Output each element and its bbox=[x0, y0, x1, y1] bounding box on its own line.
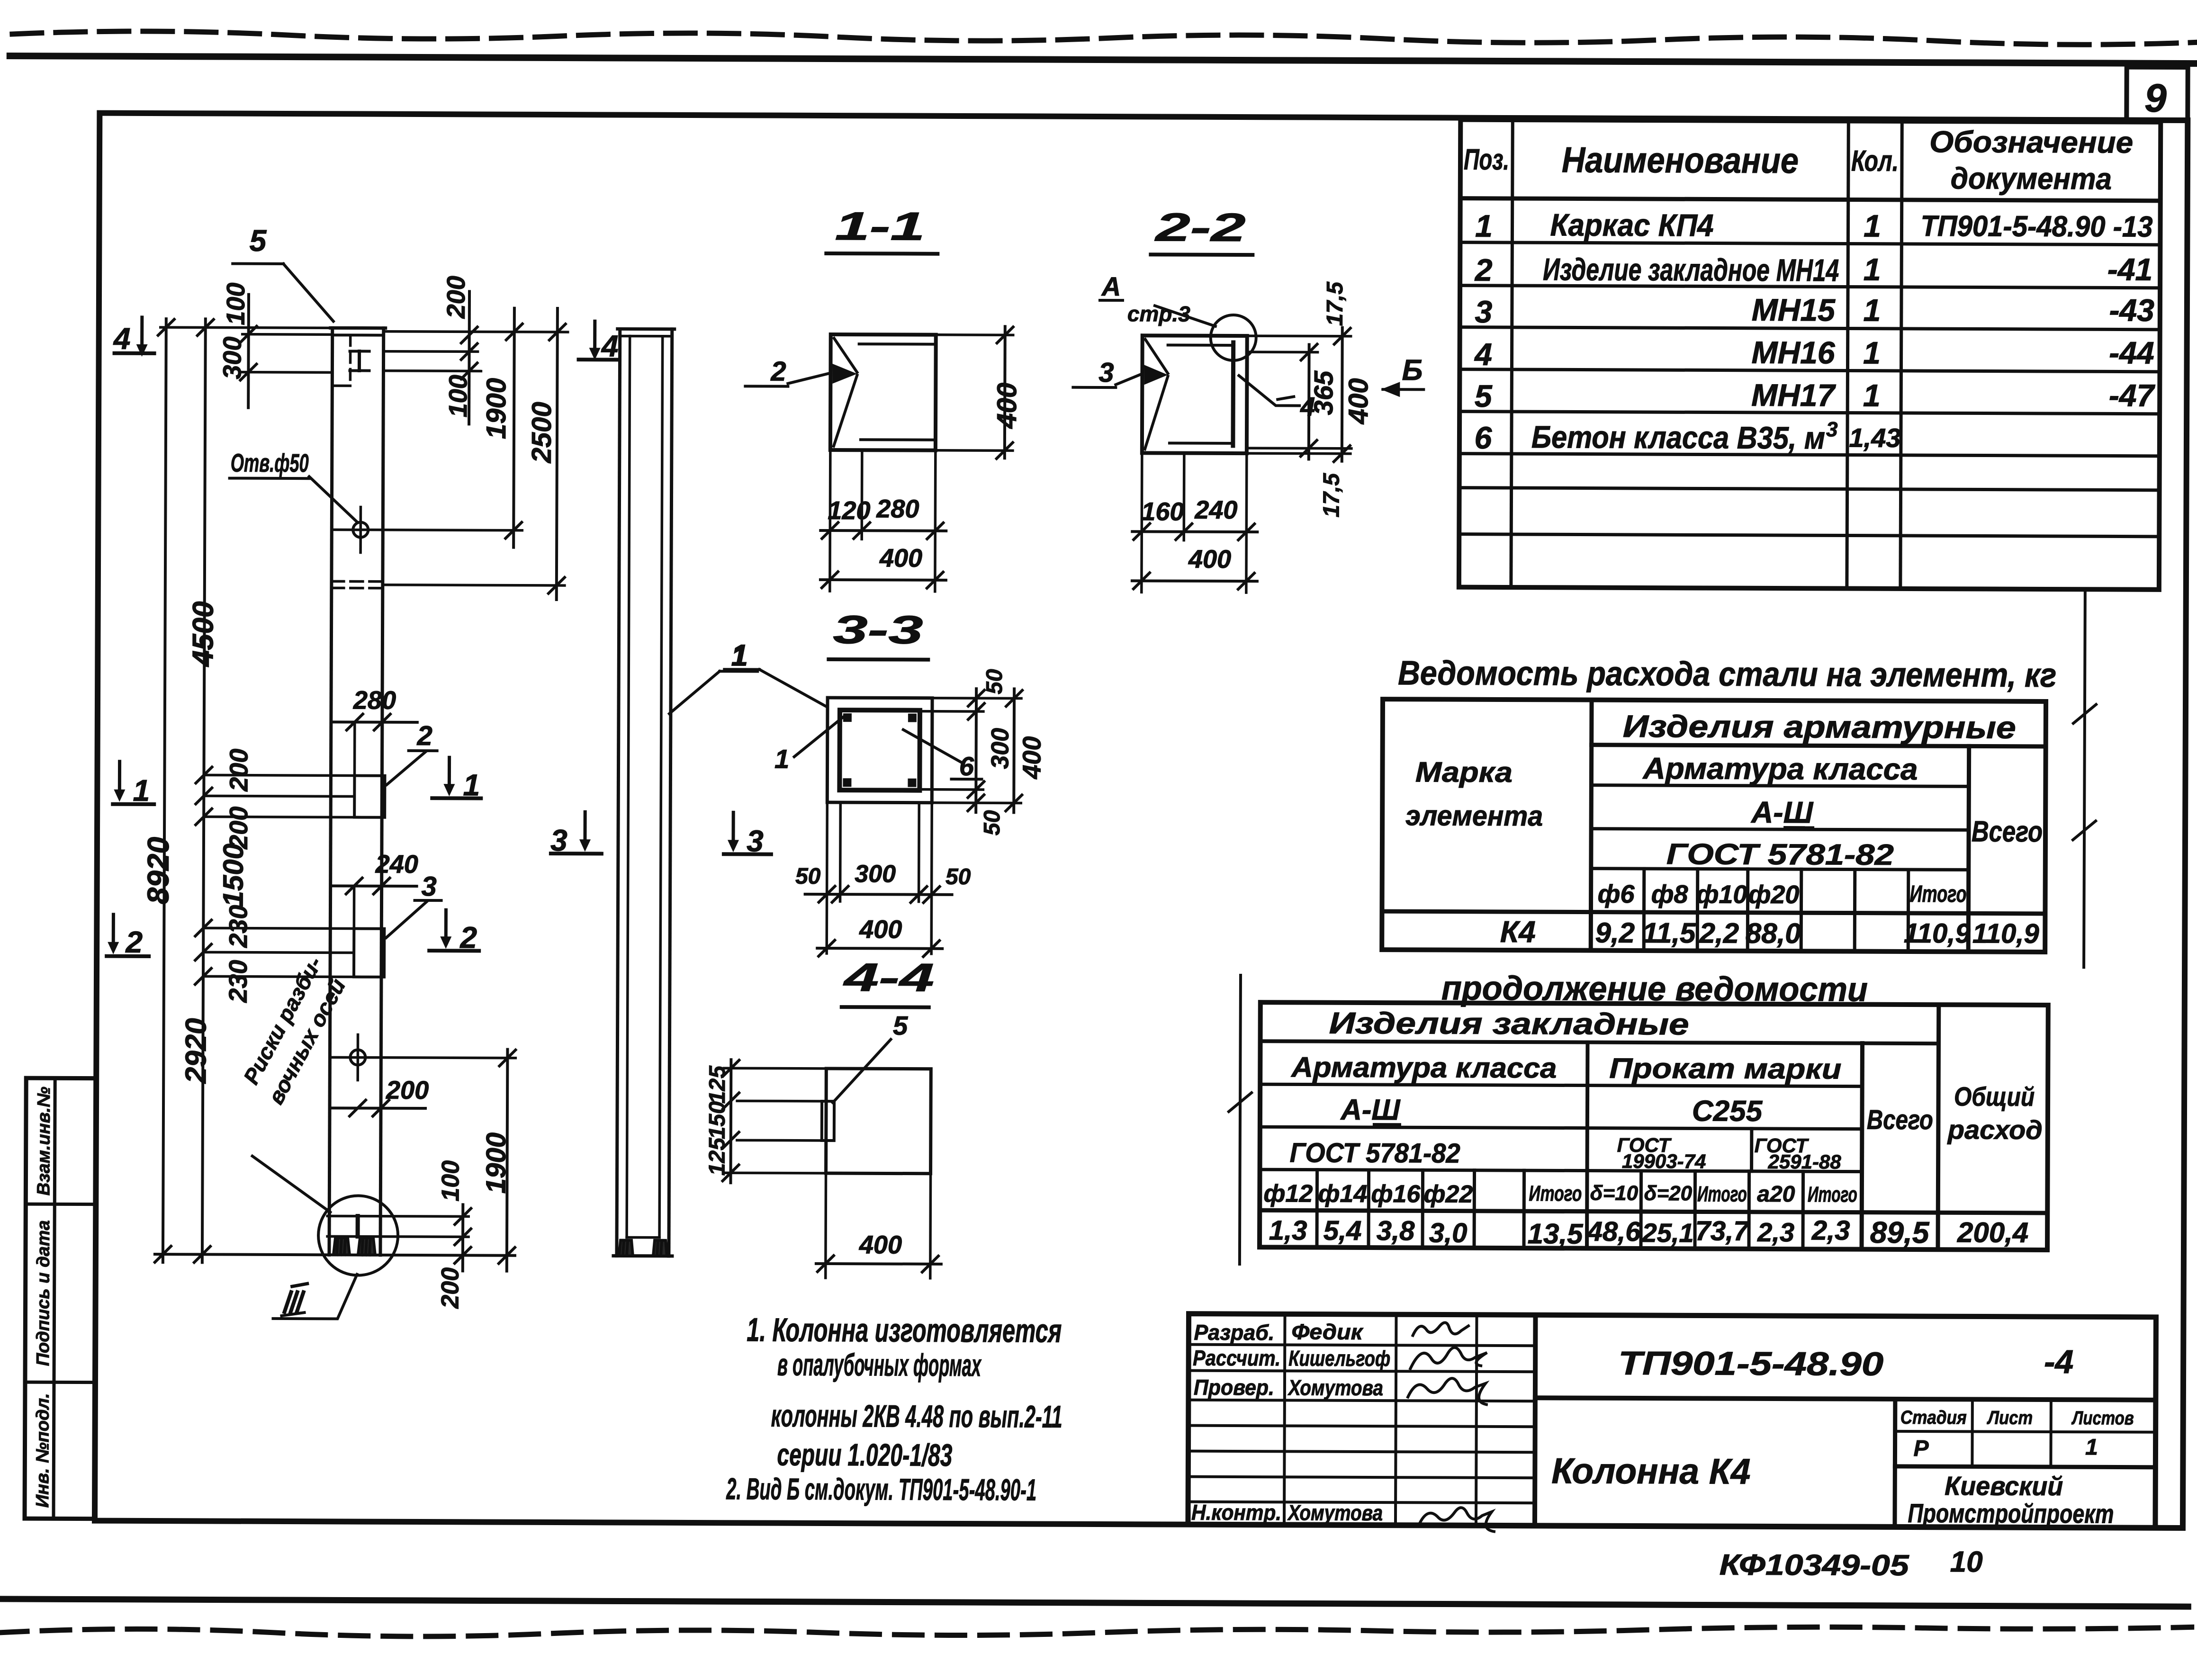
label A leader bbox=[1155, 305, 1216, 326]
spec row line 3 bbox=[1460, 327, 2160, 330]
s33 bottom ext a bbox=[827, 802, 827, 953]
svg-text:2,3: 2,3 bbox=[1757, 1217, 1794, 1247]
svg-text:9: 9 bbox=[2144, 76, 2167, 120]
extension line level 788 bbox=[383, 369, 481, 372]
svg-text:ф14: ф14 bbox=[1318, 1180, 1367, 1208]
steel table header bottom line bbox=[1382, 911, 2045, 914]
svg-text:2: 2 bbox=[1474, 252, 1493, 287]
s11 tick d1 bbox=[822, 522, 838, 539]
svg-text:δ=10: δ=10 bbox=[1590, 1182, 1639, 1205]
svg-text:400: 400 bbox=[1343, 378, 1374, 424]
svg-text:6: 6 bbox=[959, 751, 974, 781]
svg-text:-47: -47 bbox=[2109, 377, 2156, 413]
section mark 2 left underline bbox=[107, 954, 149, 958]
side view right foot hatch bbox=[657, 1241, 662, 1256]
spec row line 6 bbox=[1459, 454, 2160, 456]
svg-text:9,2: 9,2 bbox=[1595, 917, 1635, 949]
s33 tick b5 bbox=[819, 940, 835, 956]
s22 dim line 400 bottom bbox=[1132, 579, 1257, 583]
steel table subcolumn f10 bbox=[1746, 869, 1750, 951]
svg-text:МН16: МН16 bbox=[1751, 335, 1836, 370]
s11 bottom ext right bbox=[935, 450, 936, 592]
svg-text:5,4: 5,4 bbox=[1324, 1215, 1362, 1246]
svg-text:3,0: 3,0 bbox=[1429, 1217, 1468, 1248]
s44 ext 2327 bbox=[737, 1100, 822, 1103]
hole axis horizontal bbox=[333, 530, 522, 530]
svg-text:колонны 2КВ 4.48 по вып.2-1: колонны 2КВ 4.48 по вып.2-11 bbox=[771, 1398, 1062, 1434]
svg-text:Наименование: Наименование bbox=[1562, 140, 1799, 181]
steel table subcolumn f20 bbox=[1800, 869, 1803, 951]
cont table Obshchiy raskhod column divider bbox=[1938, 1005, 1939, 1249]
svg-text:400: 400 bbox=[859, 915, 902, 943]
cont table line under Armatura/Prokat bbox=[1260, 1084, 1862, 1086]
hole axis vertical bbox=[359, 507, 362, 553]
svg-text:160: 160 bbox=[1141, 497, 1184, 526]
title block row Rasschit bottom bbox=[1189, 1371, 1535, 1372]
svg-text:Инв. №подл.: Инв. №подл. bbox=[33, 1393, 53, 1508]
svg-text:элемента: элемента bbox=[1405, 800, 1543, 832]
svg-text:ф8: ф8 bbox=[1651, 880, 1688, 908]
section mark 3 right underline bbox=[724, 852, 771, 856]
s44 dim line bottom bbox=[816, 1262, 941, 1266]
section 2-2 detail circle A bbox=[1211, 315, 1256, 360]
seg tick 2068 bbox=[195, 968, 211, 984]
section 1-1 anchor plate triangle bbox=[832, 364, 857, 384]
leader Otv f50 bbox=[309, 476, 357, 522]
rebar dot 1 bbox=[843, 713, 852, 722]
tick 747 bbox=[461, 343, 477, 359]
svg-text:280: 280 bbox=[876, 494, 919, 523]
riski leader bbox=[252, 1156, 330, 1213]
steel table line under Izdeliya armaturnye bbox=[1592, 745, 2046, 746]
title block row 4 bbox=[1189, 1426, 1535, 1427]
svg-text:а20: а20 bbox=[1757, 1182, 1795, 1207]
svg-text:Лист: Лист bbox=[1987, 1408, 2033, 1428]
s22 bottom ext left bbox=[1142, 453, 1142, 592]
seg tick 698 bbox=[198, 319, 214, 335]
svg-text:1: 1 bbox=[1864, 208, 1881, 243]
title block right section divider bbox=[1892, 1399, 1897, 1527]
svg-text:2,2: 2,2 bbox=[1699, 917, 1739, 949]
tick 100-300 b bbox=[240, 364, 256, 380]
svg-text:Промстройпроект: Промстройпроект bbox=[1908, 1498, 2114, 1529]
embedded I mark top bar bbox=[350, 350, 369, 352]
cont table GOST 19903/2591 divider bbox=[1750, 1129, 1753, 1171]
svg-text:2: 2 bbox=[770, 356, 786, 387]
s33 tick b2 bbox=[832, 886, 848, 902]
svg-text:ГОСТ 5781-82: ГОСТ 5781-82 bbox=[1290, 1137, 1460, 1168]
svg-text:3: 3 bbox=[421, 871, 436, 902]
section 1-1 top plate line bbox=[859, 342, 933, 346]
section 2-2 anchor diagonal top bbox=[1145, 339, 1168, 373]
s11 tick d4 bbox=[822, 572, 838, 588]
left strip divider 1 bbox=[26, 1203, 96, 1206]
column front view right edge bbox=[380, 328, 384, 1255]
svg-text:2: 2 bbox=[459, 920, 477, 954]
svg-text:3: 3 bbox=[1826, 418, 1838, 441]
svg-text:-43: -43 bbox=[2109, 292, 2154, 327]
side view inner right line bbox=[659, 336, 663, 1238]
svg-text:400: 400 bbox=[1017, 736, 1046, 779]
svg-text:50: 50 bbox=[980, 810, 1005, 836]
svg-text:Б: Б bbox=[1402, 354, 1423, 386]
s22 tick e4 bbox=[1134, 573, 1150, 589]
s44 tick l1 bbox=[723, 1060, 739, 1076]
svg-text:1900: 1900 bbox=[481, 378, 512, 439]
svg-text:400: 400 bbox=[859, 1231, 902, 1259]
dim line top 200/100 bbox=[468, 291, 471, 424]
s22 tick e3 bbox=[1238, 524, 1254, 540]
label III stroke 3 bbox=[297, 1292, 304, 1312]
s33 bottom ext b bbox=[839, 802, 842, 901]
seg tick 1687 bbox=[196, 788, 212, 804]
s22 tick 956 bbox=[1334, 446, 1350, 462]
s44 embedded plate MN17 bbox=[822, 1101, 834, 1141]
level ext 2068 bbox=[206, 976, 354, 977]
svg-text:ф12: ф12 bbox=[1263, 1180, 1313, 1207]
bottom small dim line bbox=[461, 1204, 464, 1271]
svg-text:Обозначение: Обозначение bbox=[1929, 125, 2133, 160]
dim 280 line bbox=[332, 720, 417, 724]
s22 tick e1 bbox=[1134, 523, 1150, 539]
spec column divider Poz bbox=[1511, 120, 1513, 587]
leader III bbox=[273, 1274, 357, 1319]
section mark 4 top right arrow bbox=[593, 321, 596, 349]
title block signature table right edge bbox=[1535, 1315, 1536, 1526]
tick 2500 b bbox=[549, 577, 565, 593]
s44 ext 2479 bbox=[724, 1171, 826, 1174]
s22 ext 708 bbox=[1247, 334, 1351, 337]
svg-text:200,4: 200,4 bbox=[1957, 1216, 2028, 1249]
signature of Khomutova bbox=[1407, 1378, 1488, 1405]
s11 ext bottom bbox=[936, 449, 1013, 452]
level ext 1687 bbox=[204, 795, 331, 798]
left foot outline bbox=[333, 1238, 350, 1255]
s33 tick r2 bbox=[968, 703, 984, 719]
cont subcolumn f12 bbox=[1315, 1170, 1319, 1248]
label 2 bar bbox=[409, 749, 437, 752]
s33 tick r5 bbox=[1006, 690, 1022, 706]
underline of III bbox=[1783, 826, 1814, 829]
label III overbar bbox=[292, 1284, 307, 1286]
continuation table outer border bbox=[1260, 1002, 2048, 1250]
joint line 1 bbox=[331, 795, 354, 798]
svg-text:200: 200 bbox=[386, 1076, 429, 1105]
cont subcolumn d10 bbox=[1639, 1171, 1643, 1249]
level ext 1966 bbox=[206, 928, 354, 928]
s33 bottom ext c bbox=[918, 803, 920, 902]
svg-text:1: 1 bbox=[1863, 335, 1881, 370]
section 2-2 bottom plate line bbox=[1170, 442, 1233, 445]
steel table divider Marka column bbox=[1591, 700, 1592, 951]
s22 bottom ext right bbox=[1246, 453, 1247, 593]
s11 tick d2 bbox=[854, 522, 870, 539]
cont subcolumn f16 bbox=[1421, 1170, 1424, 1248]
svg-text:2,3: 2,3 bbox=[1811, 1215, 1850, 1246]
tick 1900 top b bbox=[505, 522, 522, 539]
seg tick 2017 bbox=[195, 944, 211, 960]
top extension line y705 bbox=[386, 332, 568, 332]
s44 tick l3 bbox=[723, 1132, 739, 1148]
hole Otv f50 circle bbox=[353, 522, 368, 538]
side view outer right edge bbox=[669, 329, 672, 1256]
title block row 5 bbox=[1188, 1451, 1535, 1453]
svg-text:Изделия закладные: Изделия закладные bbox=[1329, 1006, 1689, 1042]
svg-text:3-3: 3-3 bbox=[833, 607, 923, 652]
left binding strip boxes bbox=[25, 1078, 96, 1519]
hidden line extension bbox=[383, 585, 565, 585]
section mark 3 mid arrow bbox=[583, 812, 586, 840]
s11 dim line 120-280 bbox=[820, 529, 946, 532]
s33 tick r4 bbox=[968, 795, 984, 811]
tick 100-300 a bbox=[241, 326, 257, 342]
title block row 7 bbox=[1188, 1502, 1535, 1503]
section 2-2 label 3 bar bbox=[1073, 386, 1116, 389]
section mark 4 top left arrow bbox=[140, 317, 144, 345]
s33 tick b3 bbox=[911, 887, 927, 903]
detail circle III bbox=[318, 1195, 398, 1276]
dim line 2500 bbox=[557, 308, 558, 600]
column top cap inner line bbox=[333, 333, 384, 336]
tick 712 bbox=[461, 327, 477, 343]
s22 tick 708 bbox=[1334, 328, 1351, 344]
signature of N kontr bbox=[1419, 1508, 1495, 1532]
left strip inner divider vertical bbox=[54, 1078, 55, 1518]
title block signature col 3 divider bbox=[1476, 1315, 1477, 1526]
svg-text:Ведомость расхода стали: Ведомость расхода стали на элемент, кг bbox=[1398, 654, 2056, 694]
cont table Vsego column divider bbox=[1862, 1043, 1863, 1249]
svg-text:1: 1 bbox=[1863, 378, 1881, 413]
svg-text:Марка: Марка bbox=[1415, 756, 1513, 788]
label 3 leader bbox=[386, 901, 427, 938]
svg-text:125: 125 bbox=[705, 1137, 730, 1176]
torn paper edge bottom (wavy dashed line) bbox=[0, 1619, 2197, 1643]
svg-text:Хомутова: Хомутова bbox=[1287, 1375, 1383, 1400]
title block doc row bottom bbox=[1535, 1398, 2156, 1400]
svg-text:200: 200 bbox=[437, 1267, 464, 1309]
cont table header bottom bbox=[1260, 1210, 2047, 1213]
tick bottom 2573 bbox=[455, 1208, 471, 1224]
svg-text:Прокат марки: Прокат марки bbox=[1609, 1052, 1841, 1085]
svg-text:1500: 1500 bbox=[217, 844, 249, 907]
s33 dim line 50-300-50 right bbox=[974, 689, 978, 812]
section 1-1 title underline bbox=[826, 252, 937, 256]
svg-text:11,5: 11,5 bbox=[1642, 917, 1696, 949]
s44 ext 2258 bbox=[724, 1067, 826, 1069]
title block signature col 2 divider bbox=[1396, 1314, 1396, 1525]
continuation mark line right of steel table bbox=[2084, 591, 2085, 967]
side view bottom inner line bbox=[627, 1236, 659, 1239]
svg-text:Общий: Общий bbox=[1954, 1081, 2035, 1112]
svg-text:150: 150 bbox=[705, 1101, 730, 1140]
svg-text:Арматура класса: Арматура класса bbox=[1642, 751, 1918, 786]
svg-text:ф22: ф22 bbox=[1423, 1180, 1473, 1208]
svg-text:ф16: ф16 bbox=[1371, 1180, 1421, 1208]
svg-text:ТП901-5-48.90: ТП901-5-48.90 bbox=[1618, 1345, 1883, 1383]
section 2-2 square bbox=[1142, 335, 1247, 453]
svg-text:17,5: 17,5 bbox=[1323, 281, 1348, 326]
rebar dot 4 bbox=[908, 779, 916, 787]
svg-text:1,3: 1,3 bbox=[1269, 1215, 1307, 1246]
column front view left edge bbox=[329, 328, 333, 1255]
dim 365 line bbox=[1307, 345, 1311, 459]
svg-text:Отв.ф50: Отв.ф50 bbox=[231, 449, 309, 478]
dim 240 line bbox=[332, 884, 417, 888]
dim 400 line s22 bbox=[1341, 328, 1344, 461]
s22 ext 945 bbox=[1248, 447, 1351, 449]
cont table Armatura-Prokat divider bbox=[1587, 1042, 1588, 1249]
svg-text:Итого: Итого bbox=[1808, 1182, 1857, 1206]
section mark 4 top left underline bbox=[115, 351, 154, 355]
svg-text:110,9: 110,9 bbox=[1904, 918, 1971, 949]
tick on left continuation line bbox=[1229, 1093, 1252, 1112]
side view top cap line bbox=[620, 335, 672, 338]
svg-text:ф10: ф10 bbox=[1696, 880, 1747, 908]
svg-text:3,8: 3,8 bbox=[1377, 1215, 1415, 1246]
s44 bottom ext b bbox=[929, 1174, 932, 1278]
level ext 2017 bbox=[203, 951, 330, 954]
title block row 6 bbox=[1188, 1477, 1535, 1478]
foot level line 200 bbox=[327, 1236, 468, 1237]
svg-text:50: 50 bbox=[795, 864, 821, 889]
svg-text:Изделия арматурные: Изделия арматурные bbox=[1623, 709, 2016, 745]
label A underline bbox=[1100, 299, 1123, 302]
svg-text:Кол.: Кол. bbox=[1851, 145, 1899, 178]
svg-text:Всего: Всего bbox=[1972, 815, 2043, 848]
svg-text:Изделие закладное МН14: Изделие закладное МН14 bbox=[1543, 252, 1839, 287]
svg-text:в опалубочных формах: в опалубочных формах bbox=[777, 1347, 982, 1383]
svg-text:88,0: 88,0 bbox=[1746, 917, 1801, 949]
spec column divider Kol bbox=[1900, 121, 1902, 589]
tick 240 a bbox=[346, 878, 362, 894]
spec row line 8 bbox=[1459, 534, 2159, 537]
rebar dot 2 bbox=[908, 714, 917, 722]
svg-text:Итого: Итого bbox=[1910, 880, 1967, 907]
svg-text:125: 125 bbox=[705, 1065, 730, 1104]
dim line 100-300 top left bbox=[247, 295, 250, 408]
svg-text:Рассчит.: Рассчит. bbox=[1193, 1346, 1280, 1371]
label 2 leader bbox=[387, 752, 425, 785]
s44 tick bb2 bbox=[922, 1256, 938, 1272]
s22 dim line 160-240 bbox=[1132, 530, 1257, 533]
s44 tick l2 bbox=[723, 1093, 739, 1109]
hidden line lower bbox=[332, 587, 383, 590]
svg-text:50: 50 bbox=[945, 864, 971, 889]
svg-text:100: 100 bbox=[437, 1160, 464, 1202]
svg-text:110,9: 110,9 bbox=[1972, 918, 2039, 949]
section 2-2 top plate line bbox=[1168, 344, 1234, 347]
s44 ext 2410 bbox=[737, 1139, 822, 1142]
tick 788 bbox=[461, 363, 477, 379]
svg-text:2591-88: 2591-88 bbox=[1767, 1150, 1841, 1173]
specification table outer border bbox=[1459, 120, 2161, 590]
s33 ext 1668 bbox=[919, 788, 983, 791]
svg-text:1: 1 bbox=[133, 773, 150, 808]
cont subcolumn f14 bbox=[1367, 1170, 1370, 1248]
svg-text:5: 5 bbox=[893, 1010, 908, 1040]
svg-text:73,7: 73,7 bbox=[1695, 1215, 1750, 1246]
right foot outline bbox=[358, 1238, 375, 1255]
s11 dim line 400 bbox=[820, 578, 946, 582]
section mark 3 right arrow bbox=[731, 812, 735, 841]
s33 dim line bottom 50-300-50 bbox=[805, 894, 952, 895]
s11 tick 708 bbox=[997, 327, 1013, 343]
svg-text:3: 3 bbox=[747, 824, 764, 858]
s33 tick r3 bbox=[968, 782, 984, 798]
svg-text:4: 4 bbox=[1474, 337, 1492, 372]
svg-text:2500: 2500 bbox=[526, 402, 557, 463]
svg-text:1: 1 bbox=[1475, 208, 1493, 243]
title block row Razrab bottom bbox=[1189, 1345, 1535, 1346]
section 1-1 label 2 bar bbox=[745, 385, 788, 387]
svg-text:Итого: Итого bbox=[1697, 1181, 1747, 1206]
svg-text:25,1: 25,1 bbox=[1642, 1218, 1694, 1248]
svg-text:Федик: Федик bbox=[1291, 1319, 1364, 1344]
section mark 3 mid underline bbox=[551, 852, 602, 855]
section mark 4 top right underline bbox=[579, 358, 619, 361]
svg-text:240: 240 bbox=[1194, 496, 1237, 524]
section 1-1 label 2 leader bbox=[788, 373, 829, 384]
underline of III cont bbox=[1373, 1123, 1401, 1126]
section mark 1 left arrow bbox=[118, 762, 121, 791]
dim 280 ext bbox=[353, 725, 356, 776]
s22 tick e5 bbox=[1238, 573, 1254, 589]
svg-text:Колонна К4: Колонна К4 bbox=[1551, 1451, 1750, 1491]
svg-text:1: 1 bbox=[463, 768, 480, 802]
svg-text:Провер.: Провер. bbox=[1194, 1375, 1274, 1400]
title block stadia values bottom bbox=[1895, 1466, 2155, 1467]
s33 label 1 top leader bbox=[759, 669, 827, 706]
section 1-1 anchor diagonal bottom bbox=[834, 375, 857, 446]
section mark 1 right arrow bbox=[448, 757, 451, 785]
spec header bottom line bbox=[1460, 198, 2161, 201]
section 3-3 title underline bbox=[828, 657, 928, 662]
level ext 1731 bbox=[206, 817, 354, 817]
level ext 1643 bbox=[206, 775, 354, 775]
section 2-2 right plate line bbox=[1231, 342, 1235, 446]
spec row line 4 bbox=[1459, 369, 2160, 372]
svg-text:стр.3: стр.3 bbox=[1127, 301, 1191, 326]
svg-text:2: 2 bbox=[417, 720, 432, 751]
s11 tick d5 bbox=[927, 572, 943, 588]
s11 tick d3 bbox=[927, 523, 943, 539]
s33 tick r6 bbox=[1006, 795, 1022, 811]
embedded I mark bottom bar bbox=[350, 369, 369, 372]
svg-text:89,5: 89,5 bbox=[1870, 1215, 1930, 1249]
svg-text:280: 280 bbox=[353, 686, 396, 715]
section mark 2 left arrow bbox=[112, 915, 115, 943]
steel table subcolumn blank bbox=[1853, 870, 1857, 952]
top border line of sheet bbox=[10, 56, 2197, 63]
svg-text:120: 120 bbox=[828, 496, 870, 525]
left foot hatch bbox=[337, 1238, 345, 1255]
tick bottom 2655 bbox=[455, 1247, 471, 1263]
cont table line under A-III / C255 bbox=[1260, 1127, 1862, 1129]
svg-text:230: 230 bbox=[224, 905, 252, 948]
cont table line under GOST row bbox=[1260, 1169, 1862, 1171]
dim line 1900 bottom bbox=[507, 1050, 508, 1271]
side view bottom edge bbox=[613, 1254, 672, 1258]
svg-text:2: 2 bbox=[125, 925, 143, 959]
svg-text:50: 50 bbox=[982, 669, 1007, 694]
s22 tick 742 bbox=[1301, 344, 1317, 360]
s33 label 6 leader bbox=[903, 730, 961, 762]
section 1-1 bottom plate line bbox=[861, 438, 933, 441]
s33 tick b1 bbox=[819, 886, 835, 902]
tick 1900 bottom a bbox=[499, 1050, 515, 1066]
svg-text:А-Ш: А-Ш bbox=[1750, 795, 1814, 829]
section 3-3 square bbox=[827, 698, 932, 803]
